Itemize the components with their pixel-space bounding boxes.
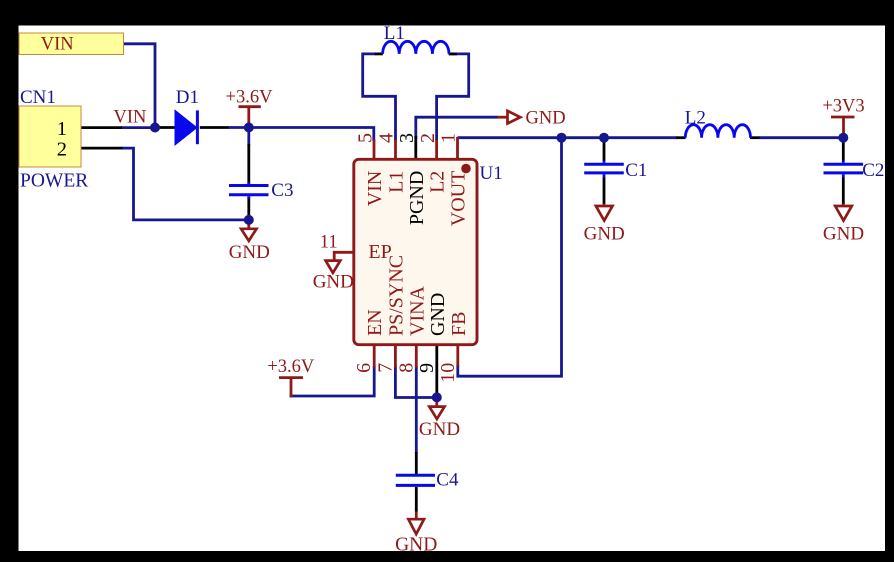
svg-text:GND: GND bbox=[419, 419, 460, 440]
svg-text:PGND: PGND bbox=[406, 171, 428, 225]
svg-text:+3.6V: +3.6V bbox=[226, 87, 274, 107]
svg-text:4: 4 bbox=[376, 133, 398, 143]
svg-text:U1: U1 bbox=[480, 163, 503, 184]
svg-text:2: 2 bbox=[57, 139, 67, 161]
svg-text:9: 9 bbox=[416, 363, 438, 373]
svg-text:C4: C4 bbox=[436, 469, 459, 490]
svg-text:10: 10 bbox=[437, 363, 459, 383]
svg-text:GND: GND bbox=[229, 242, 270, 263]
svg-text:11: 11 bbox=[320, 233, 338, 253]
svg-text:+3.6V: +3.6V bbox=[267, 357, 315, 377]
svg-text:L2: L2 bbox=[685, 107, 706, 128]
svg-text:GND: GND bbox=[526, 108, 566, 128]
svg-text:VIN: VIN bbox=[364, 171, 386, 207]
svg-text:1: 1 bbox=[438, 133, 460, 143]
svg-text:L1: L1 bbox=[384, 23, 405, 44]
svg-text:C3: C3 bbox=[271, 180, 293, 201]
svg-text:GND: GND bbox=[313, 272, 354, 293]
svg-text:2: 2 bbox=[417, 133, 439, 143]
svg-text:VIN: VIN bbox=[114, 107, 147, 127]
svg-text:EN: EN bbox=[364, 309, 386, 336]
svg-text:PS/SYNC: PS/SYNC bbox=[385, 255, 407, 336]
svg-text:VINA: VINA bbox=[406, 285, 428, 336]
svg-text:VIN: VIN bbox=[41, 34, 74, 54]
svg-text:1: 1 bbox=[57, 118, 67, 140]
svg-text:POWER: POWER bbox=[20, 171, 88, 192]
svg-text:GND: GND bbox=[395, 534, 437, 555]
svg-text:C2: C2 bbox=[862, 160, 884, 181]
svg-text:+3V3: +3V3 bbox=[822, 96, 864, 116]
svg-text:L1: L1 bbox=[386, 171, 408, 193]
svg-text:C1: C1 bbox=[625, 160, 647, 181]
svg-text:GND: GND bbox=[427, 293, 449, 336]
svg-text:5: 5 bbox=[355, 133, 377, 143]
svg-text:D1: D1 bbox=[176, 87, 199, 108]
svg-text:7: 7 bbox=[374, 363, 396, 373]
svg-text:3: 3 bbox=[396, 133, 418, 143]
svg-text:6: 6 bbox=[353, 363, 375, 373]
svg-text:VOUT: VOUT bbox=[448, 171, 470, 227]
svg-text:L2: L2 bbox=[427, 171, 449, 193]
svg-text:GND: GND bbox=[823, 224, 864, 245]
svg-text:GND: GND bbox=[584, 224, 625, 245]
svg-text:8: 8 bbox=[395, 363, 417, 373]
svg-text:FB: FB bbox=[448, 312, 470, 336]
svg-text:CN1: CN1 bbox=[20, 87, 56, 108]
